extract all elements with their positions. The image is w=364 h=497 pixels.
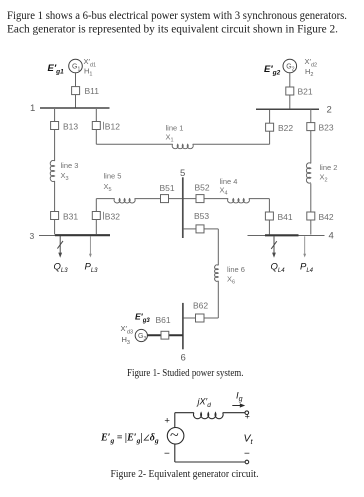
svg-text:6: 6: [181, 352, 186, 363]
svg-text:PL3: PL3: [85, 262, 99, 274]
svg-text:line 1: line 1: [166, 124, 184, 133]
svg-text:X4: X4: [220, 186, 228, 197]
svg-text:B21: B21: [298, 87, 313, 97]
svg-text:+: +: [245, 412, 250, 422]
svg-text:B51: B51: [160, 183, 175, 193]
svg-text:B62: B62: [193, 301, 208, 311]
svg-text:5: 5: [180, 168, 185, 179]
svg-text:G1: G1: [72, 64, 80, 73]
svg-text:QL3: QL3: [54, 262, 69, 274]
svg-text:E′g1: E′g1: [48, 63, 65, 76]
svg-text:B13: B13: [63, 122, 78, 132]
svg-text:G2: G2: [286, 64, 294, 73]
svg-text:QL4: QL4: [271, 262, 286, 274]
svg-text:line 5: line 5: [104, 172, 122, 181]
svg-text:Vt: Vt: [244, 433, 254, 447]
svg-text:X6: X6: [227, 275, 235, 286]
svg-text:B42: B42: [319, 212, 334, 222]
svg-text:B41: B41: [278, 212, 293, 222]
svg-text:B11: B11: [85, 86, 100, 96]
svg-text:B52: B52: [195, 183, 210, 193]
svg-text:B31: B31: [63, 212, 78, 222]
svg-text:Figure 1- Studied power system: Figure 1- Studied power system.: [127, 367, 244, 379]
svg-text:+: +: [164, 416, 170, 427]
svg-text:4: 4: [329, 231, 334, 242]
svg-text:Figure 2- Equivalent generator: Figure 2- Equivalent generator circuit.: [111, 468, 259, 480]
svg-text:E′g3: E′g3: [135, 312, 150, 325]
svg-text:B53: B53: [194, 211, 209, 221]
svg-text:H2: H2: [305, 67, 313, 78]
svg-text:3: 3: [30, 231, 35, 241]
svg-text:line 3: line 3: [61, 161, 79, 170]
svg-text:line 2: line 2: [320, 163, 338, 172]
svg-text:X′d3: X′d3: [121, 324, 134, 336]
svg-text:B61: B61: [156, 315, 171, 325]
svg-text:jX′d: jX′d: [197, 397, 212, 410]
svg-text:2: 2: [327, 105, 332, 116]
svg-text:B23: B23: [319, 123, 334, 133]
svg-text:X2: X2: [320, 173, 328, 184]
svg-text:line 6: line 6: [227, 265, 245, 274]
svg-text:1: 1: [30, 103, 35, 114]
svg-text:E′g = |E′g|∠δg: E′g = |E′g|∠δg: [100, 433, 159, 446]
svg-text:−: −: [164, 449, 170, 460]
svg-text:Figure 1 shows a 6-bus electri: Figure 1 shows a 6-bus electrical power …: [7, 10, 347, 22]
svg-text:X1: X1: [166, 133, 174, 144]
svg-text:B12: B12: [105, 122, 120, 132]
svg-text:Ig: Ig: [236, 391, 243, 404]
svg-text:B22: B22: [278, 123, 293, 133]
svg-text:PL4: PL4: [300, 262, 314, 274]
svg-text:X3: X3: [61, 171, 69, 182]
svg-text:−: −: [244, 449, 250, 460]
svg-text:H3: H3: [122, 335, 130, 346]
svg-text:Each generator is represented: Each generator is represented by its equ…: [7, 24, 338, 36]
svg-text:E′g2: E′g2: [264, 64, 281, 77]
svg-text:B32: B32: [105, 212, 120, 222]
svg-text:G3: G3: [138, 333, 146, 342]
svg-text:X5: X5: [104, 182, 112, 193]
svg-text:~: ~: [170, 427, 179, 444]
